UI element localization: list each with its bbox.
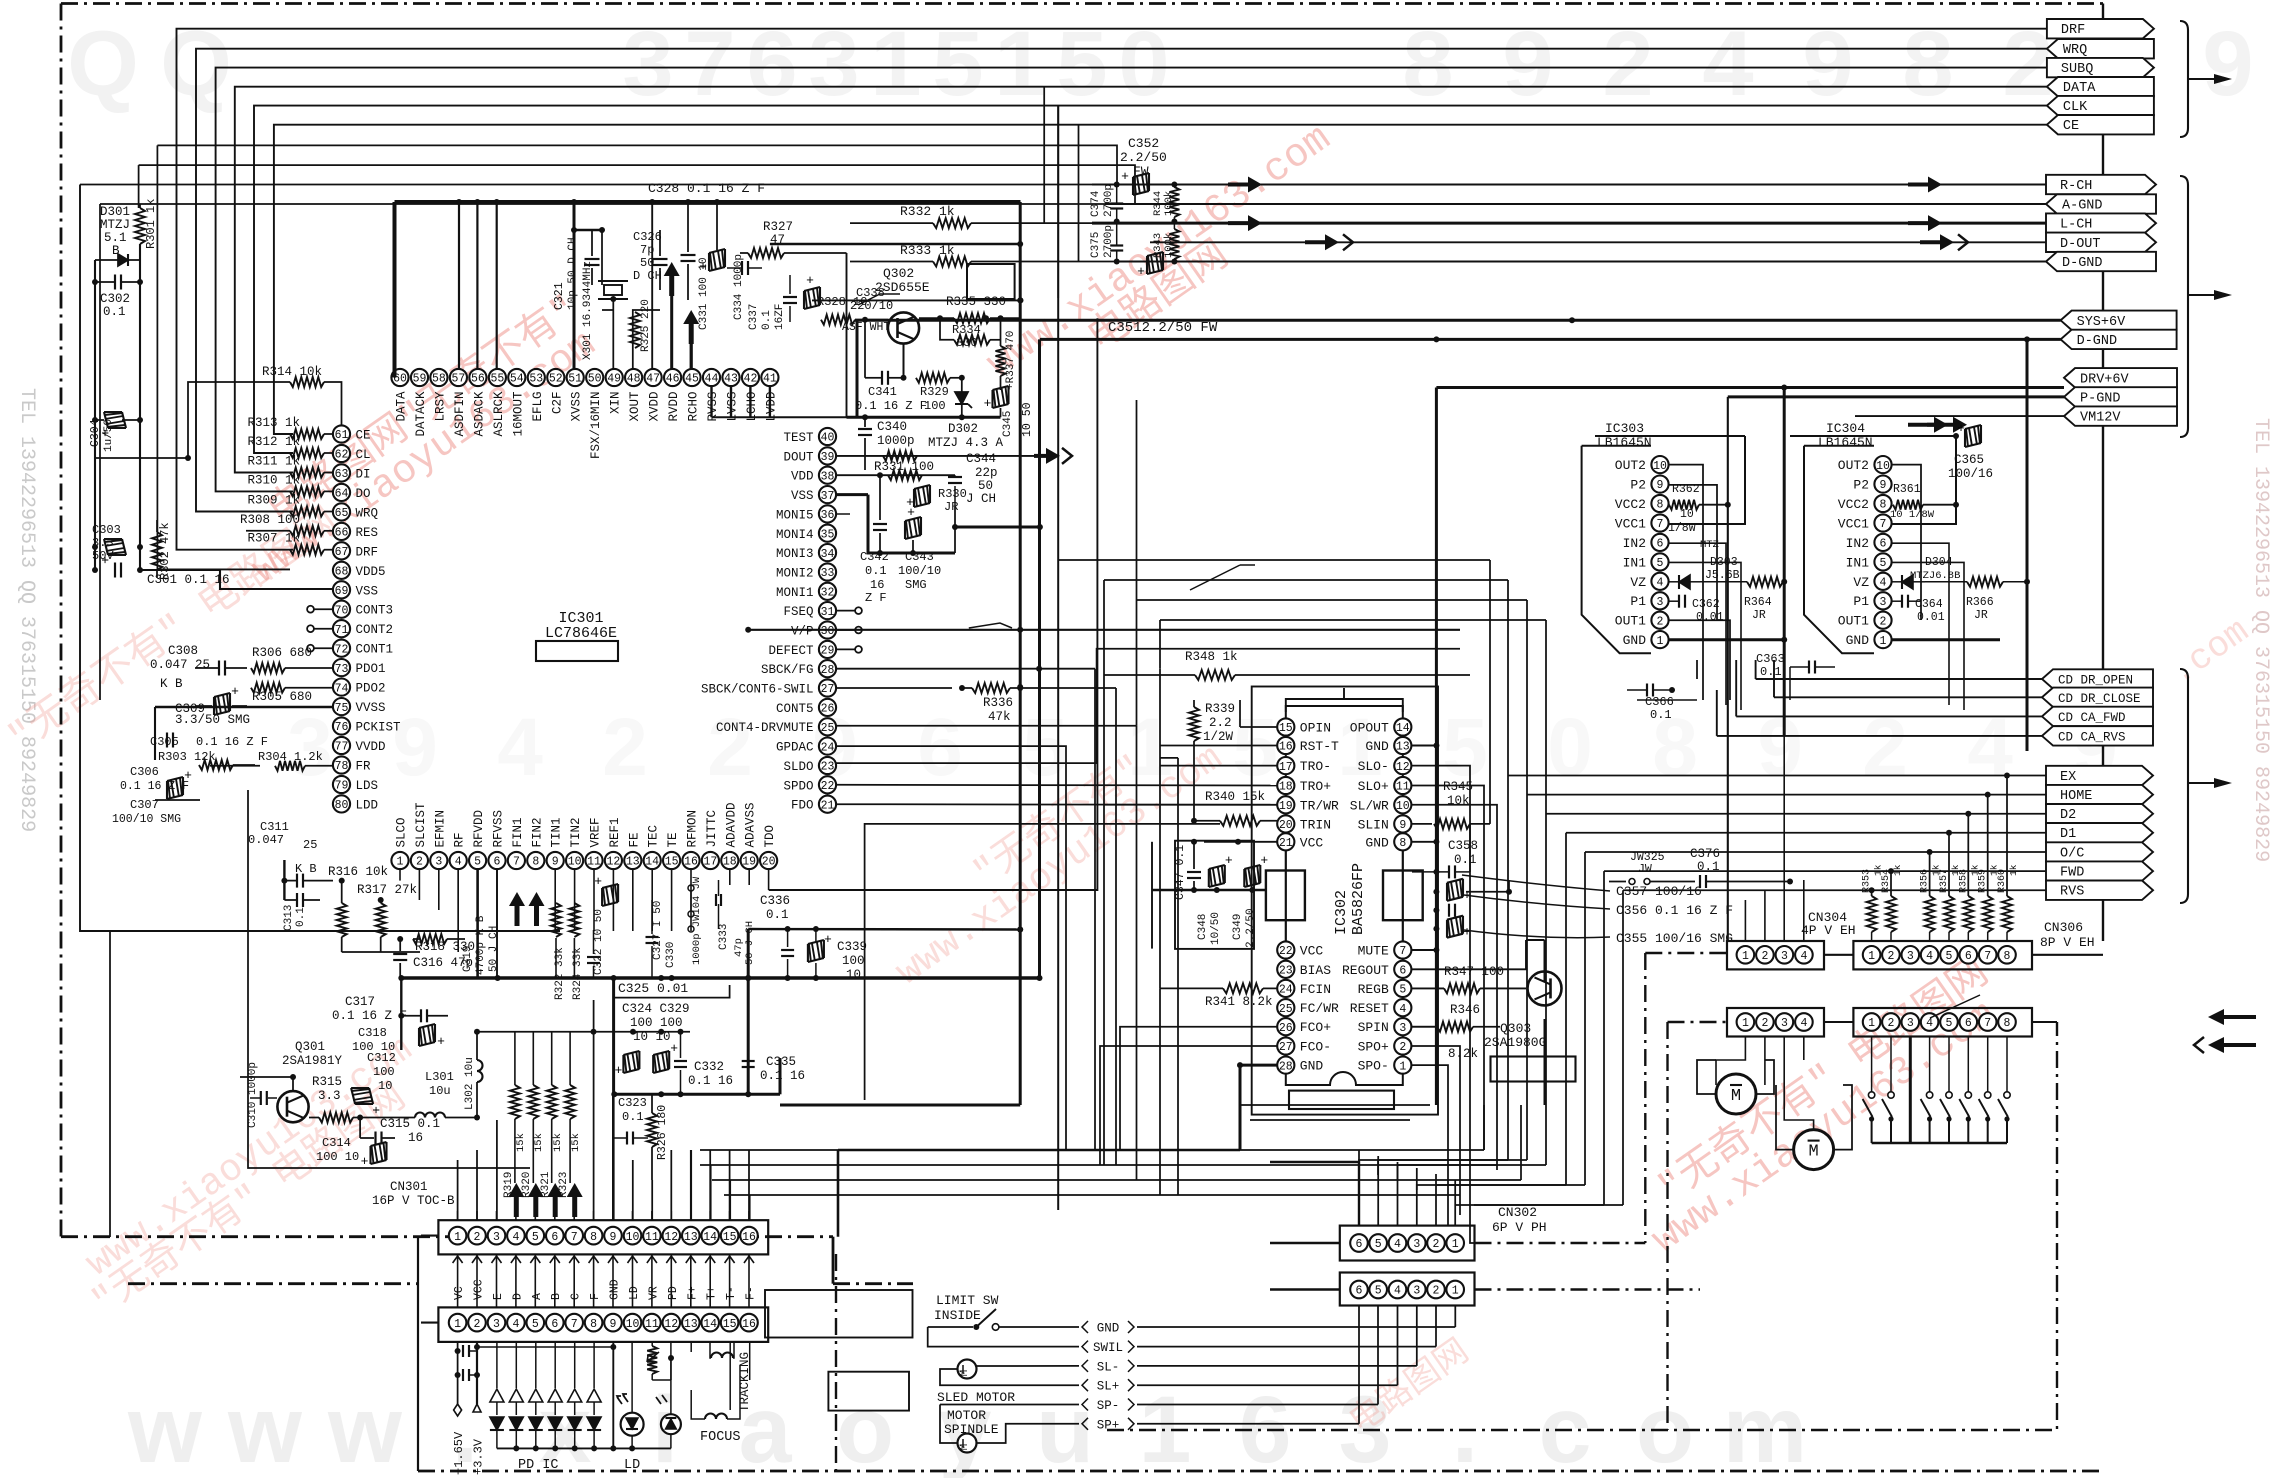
svg-text:79: 79 xyxy=(335,780,349,793)
svg-text:9: 9 xyxy=(610,1231,617,1244)
label C330 xyxy=(665,942,677,968)
IC302 pin 12 SLO- xyxy=(1358,757,1412,774)
svg-text:RFMON: RFMON xyxy=(686,810,700,848)
CN301 row2 pin 14 xyxy=(701,1314,719,1332)
wire opin feed xyxy=(1240,700,1277,727)
svg-text:58: 58 xyxy=(432,373,446,386)
svg-text:R315: R315 xyxy=(312,1075,342,1089)
wire bus3 flag to IC301 xyxy=(216,68,2047,492)
CN306 row1 pin 2 xyxy=(1882,946,1900,964)
svg-text:0.1: 0.1 xyxy=(103,305,126,319)
dash vertical 836 xyxy=(835,1254,837,1471)
wire CN301 col1 riser xyxy=(457,1160,459,1220)
flag CD DR_CLOSE xyxy=(2042,688,2153,707)
photodiode D5 filled xyxy=(568,1417,582,1448)
IC301 pin 70 NC stub xyxy=(307,606,332,613)
page border top xyxy=(61,2,2103,5)
svg-text:RES: RES xyxy=(356,526,379,540)
svg-text:R307 1k: R307 1k xyxy=(247,532,300,546)
CN301 wire F- xyxy=(744,1254,758,1307)
IC301 pin 21 FDO xyxy=(791,796,836,813)
svg-text:MONI3: MONI3 xyxy=(776,547,814,561)
svg-text:59: 59 xyxy=(413,373,427,386)
rect bottom mid 1 xyxy=(765,1290,913,1338)
IC301 pin 8 FIN2 xyxy=(527,817,544,869)
svg-text:19: 19 xyxy=(1279,800,1293,813)
svg-text:12: 12 xyxy=(664,1231,678,1244)
wire Q301 base xyxy=(240,1074,296,1091)
svg-text:R361: R361 xyxy=(1893,483,1921,496)
svg-text:WRQ: WRQ xyxy=(2063,43,2087,58)
svg-text:35: 35 xyxy=(821,529,835,542)
capacitor C318 ecap xyxy=(352,1024,445,1054)
resistor R303 xyxy=(158,750,255,770)
svg-text:R335 330: R335 330 xyxy=(946,295,1006,309)
svg-text:RFVSS: RFVSS xyxy=(492,810,506,848)
CN301 wire VC xyxy=(453,1254,467,1307)
svg-text:5: 5 xyxy=(1880,557,1887,570)
resistor R360 xyxy=(1997,864,2019,941)
svg-text:16ZF: 16ZF xyxy=(774,304,786,330)
bracket middle group xyxy=(2180,176,2232,437)
svg-text:0.047 25: 0.047 25 xyxy=(150,658,210,672)
IC301 pin 6 RFVSS xyxy=(488,810,505,869)
wire RFVDD thick drop xyxy=(476,869,479,978)
wire F+ col xyxy=(690,1342,692,1352)
arrow FIN2 xyxy=(529,892,545,926)
svg-text:R311 1k: R311 1k xyxy=(247,455,300,469)
svg-text:3.3: 3.3 xyxy=(318,1089,341,1103)
IC301 pin 34 MONI3 xyxy=(776,544,836,561)
arrow D-OUT 1 xyxy=(1305,234,1353,250)
svg-text:45: 45 xyxy=(685,373,699,386)
IC303 pin 2 OUT1 xyxy=(1615,612,1669,629)
flag A-GND xyxy=(2046,194,2156,213)
resistor R366 xyxy=(1925,577,2030,622)
svg-text:GND: GND xyxy=(609,1279,622,1300)
svg-text:13: 13 xyxy=(684,1231,698,1244)
flag D-GND xyxy=(2046,252,2156,271)
jumper JW104 xyxy=(688,876,703,965)
wire pin23 route xyxy=(836,649,1460,763)
svg-text:LB1645N: LB1645N xyxy=(1597,435,1652,450)
svg-text:13: 13 xyxy=(684,1318,698,1331)
svg-text:PD IC: PD IC xyxy=(518,1458,559,1473)
CN304 row2 pin 3 xyxy=(1776,1013,1794,1031)
svg-text:R329: R329 xyxy=(920,385,949,399)
svg-text:FIN1: FIN1 xyxy=(511,817,525,847)
wire IC301 bottom pin 6 drop xyxy=(496,869,498,931)
svg-text:+: + xyxy=(614,1063,622,1078)
wire IC301 bottom pin 11 drop xyxy=(593,869,595,931)
label C357 xyxy=(1616,884,1702,899)
CN306 row2 pin 1 xyxy=(1863,1013,1881,1031)
svg-text:32: 32 xyxy=(821,587,835,600)
svg-text:10: 10 xyxy=(1680,508,1694,521)
wire CN302 col 4 up xyxy=(1397,1162,1399,1226)
CN304 col wires xyxy=(1745,736,1803,941)
svg-text:9: 9 xyxy=(1657,479,1664,492)
wire ic303 in wires xyxy=(1669,543,1741,710)
wire c325 line xyxy=(614,985,730,998)
svg-text:6: 6 xyxy=(1657,538,1664,551)
svg-text:1: 1 xyxy=(454,1231,461,1244)
svg-text:CONT4-DRVMUTE: CONT4-DRVMUTE xyxy=(716,721,814,735)
svg-text:JR: JR xyxy=(944,500,958,514)
IC301 pin 13 FE xyxy=(624,832,641,869)
svg-text:TEC: TEC xyxy=(647,825,661,848)
IC302 pin 28 GND xyxy=(1277,1057,1323,1074)
svg-text:C312: C312 xyxy=(367,1051,396,1065)
svg-text:CL: CL xyxy=(356,448,371,462)
capacitor C375 xyxy=(1090,222,1123,262)
svg-text:GPDAC: GPDAC xyxy=(776,741,814,755)
wire cn302 upper horizontals xyxy=(1240,1105,1430,1120)
wire pin28 gnd xyxy=(1237,1062,1277,1150)
svg-text:7: 7 xyxy=(1399,945,1406,958)
svg-text:68: 68 xyxy=(335,566,349,579)
resistor R309 xyxy=(247,494,333,517)
wire A-GND line xyxy=(1105,203,2046,205)
arrow left in 1 xyxy=(2208,1009,2256,1025)
svg-text:+3.3V: +3.3V xyxy=(472,1438,486,1475)
CN302 label xyxy=(1492,1205,1547,1235)
resistor R353 xyxy=(1862,864,1884,941)
wire CN301 col11 riser xyxy=(651,1180,653,1220)
capacitor C332 xyxy=(674,1032,733,1095)
svg-text:LDS: LDS xyxy=(356,779,379,793)
spindle motor sym xyxy=(958,1434,977,1453)
svg-text:1: 1 xyxy=(1868,1017,1875,1030)
svg-text:8P V EH: 8P V EH xyxy=(2040,935,2095,950)
svg-text:OUT1: OUT1 xyxy=(1838,614,1869,629)
wire bus1 flag to IC301 xyxy=(177,29,2047,550)
svg-text:SPO+: SPO+ xyxy=(1358,1040,1389,1055)
wire R332 xyxy=(850,222,1092,224)
resistor R356 xyxy=(1920,864,1942,941)
IC301 pin 71 CONT2 xyxy=(333,620,393,637)
wire pin28 line xyxy=(836,666,1095,1150)
capacitor C374 xyxy=(1090,184,1123,222)
svg-text:JW: JW xyxy=(1638,863,1652,876)
IC301 pin 30 V/P xyxy=(791,621,836,638)
IC301 pin 10 TIN2 xyxy=(566,817,583,869)
annotation tick 4 xyxy=(858,294,900,305)
CN306 row2 box xyxy=(1853,1008,2032,1037)
wire IC301 bottom pin 12 drop xyxy=(612,869,614,931)
svg-text:2SA1980G: 2SA1980G xyxy=(1484,1035,1546,1050)
wire y253 xyxy=(800,252,847,254)
wire RF pin4 drop xyxy=(457,869,459,952)
wire vert 1039 xyxy=(1038,339,1041,978)
motor M2 xyxy=(1776,1085,1852,1170)
svg-text:PD: PD xyxy=(667,1286,680,1300)
capacitor C323 xyxy=(614,1096,648,1145)
svg-text:1/2W: 1/2W xyxy=(1203,730,1234,744)
svg-text:4: 4 xyxy=(512,1231,519,1244)
svg-text:R348 1k: R348 1k xyxy=(1185,650,1238,664)
svg-text:VCC: VCC xyxy=(1300,944,1324,959)
wire EX line left xyxy=(1104,580,1508,1160)
LED LD2 xyxy=(656,1342,681,1449)
IC301 pin 27 SBCK/CONT6-SWIL xyxy=(701,679,836,696)
svg-text:0.1 16 Z F: 0.1 16 Z F xyxy=(196,735,268,749)
wire SWIL right xyxy=(1137,1305,1436,1347)
CN301 row1 pin 7 xyxy=(565,1227,583,1245)
capacitor C306 xyxy=(120,765,192,799)
CN304 row1 pin 1 xyxy=(1737,946,1755,964)
svg-text:16: 16 xyxy=(742,1318,756,1331)
svg-text:100/10: 100/10 xyxy=(898,564,941,578)
CN301 wire LD xyxy=(628,1254,642,1307)
photodiode D4 open xyxy=(548,1342,562,1415)
wire VCC21 left xyxy=(1152,839,1277,949)
svg-text:9: 9 xyxy=(610,1318,617,1331)
IC302 pin 16 RST-T xyxy=(1277,737,1339,754)
wire trwr feed xyxy=(1104,804,1277,806)
CN301 row2 box xyxy=(438,1307,768,1342)
svg-text:SBCK/CONT6-SWIL: SBCK/CONT6-SWIL xyxy=(701,683,814,697)
capacitor C357 ecap xyxy=(1447,879,1471,903)
capacitor C307 xyxy=(112,798,200,826)
svg-text:2: 2 xyxy=(707,702,753,793)
CN302 left wire row1 xyxy=(1270,1162,1359,1243)
svg-text:4: 4 xyxy=(1394,1285,1401,1298)
CN306 row2 pin 3 xyxy=(1902,1013,1920,1031)
capacitor C316 xyxy=(393,936,473,978)
flag R-CH xyxy=(2046,175,2156,194)
wire thin y1031 xyxy=(474,1029,690,1035)
svg-text:R312 1k: R312 1k xyxy=(247,435,300,449)
wire CN301 col 16 up xyxy=(748,1211,750,1220)
wire D-GND line xyxy=(770,241,2046,265)
svg-text:2: 2 xyxy=(1433,1285,1440,1298)
IC301 pin 69 VSS xyxy=(333,581,378,598)
wire TDO drop xyxy=(769,869,790,890)
svg-text:14: 14 xyxy=(1396,722,1410,735)
svg-text:XOUT: XOUT xyxy=(628,391,642,422)
CN301 row2 pin 16 xyxy=(740,1314,758,1332)
LED LD1 xyxy=(617,1342,644,1452)
flag DRF xyxy=(2047,19,2154,38)
CN302 dash right row2 xyxy=(1475,1288,1701,1290)
capacitor C315 xyxy=(360,1117,440,1145)
limit switch xyxy=(928,1309,1079,1330)
wire XVDD pin47 xyxy=(651,202,653,369)
svg-text:XIN: XIN xyxy=(609,392,623,415)
CN302 row1 pin 1 xyxy=(1446,1234,1464,1252)
wire vert 2027 xyxy=(2026,339,2029,751)
resistor R333 xyxy=(850,243,1117,267)
svg-text:+: + xyxy=(231,684,239,699)
resistor R301 xyxy=(135,199,158,249)
svg-text:FCO-: FCO- xyxy=(1300,1040,1331,1055)
svg-text:O/C: O/C xyxy=(2060,847,2084,862)
wire CN301 col8 riser xyxy=(593,1000,595,1220)
svg-text:SLDO: SLDO xyxy=(783,760,813,774)
IC302 pin 1 SPO- xyxy=(1358,1057,1412,1074)
CN306 row2 pin 7 xyxy=(1979,1013,1997,1031)
svg-text:5: 5 xyxy=(1946,950,1953,963)
wire VSS pin37 bus xyxy=(836,495,1043,556)
svg-text:42: 42 xyxy=(744,373,758,386)
svg-text:22: 22 xyxy=(1279,945,1293,958)
svg-text:15k: 15k xyxy=(533,1133,545,1152)
capacitor C321 xyxy=(585,230,600,285)
IC304 pin 5 IN1 xyxy=(1846,553,1892,570)
wire CN301 col2 riser xyxy=(476,1150,478,1220)
svg-text:24: 24 xyxy=(1279,984,1293,997)
svg-text:CN301: CN301 xyxy=(390,1180,428,1194)
svg-text:3.3/50 SMG: 3.3/50 SMG xyxy=(175,713,250,727)
wire y145 run xyxy=(139,145,1135,204)
arrow R-CH 1 xyxy=(1228,177,1262,193)
CN301 row2 pin 3 xyxy=(488,1314,506,1332)
svg-text:m: m xyxy=(1723,1377,1807,1478)
svg-text:23: 23 xyxy=(1279,965,1293,978)
wire bus2 flag to IC301 xyxy=(196,49,2047,512)
svg-text:9: 9 xyxy=(552,856,559,869)
svg-text:2: 2 xyxy=(1887,950,1894,963)
svg-text:15k: 15k xyxy=(515,1133,527,1152)
wire VM12V line xyxy=(1855,415,2064,417)
svg-text:R339: R339 xyxy=(1205,702,1235,716)
CN301 row1 pin 12 xyxy=(663,1227,681,1245)
svg-text:5: 5 xyxy=(532,1318,539,1331)
svg-text:+: + xyxy=(1137,264,1145,279)
wire CN301 col 8 up xyxy=(593,1211,595,1220)
svg-text:C355 100/16 SMG: C355 100/16 SMG xyxy=(1616,931,1733,946)
wire CN301 col 9 up xyxy=(612,1211,614,1220)
svg-text:R314 10k: R314 10k xyxy=(262,365,322,379)
CN306 row2 pin 2 xyxy=(1882,1013,1900,1031)
wire CN301 row2 pin1 down xyxy=(457,1342,459,1404)
svg-text:4: 4 xyxy=(1926,1017,1933,1030)
svg-text:C323: C323 xyxy=(618,1096,647,1110)
svg-text:1: 1 xyxy=(1880,635,1887,648)
wire R-CH line xyxy=(1092,182,2046,188)
wire SP- xyxy=(940,1405,1079,1444)
svg-text:PCKIST: PCKIST xyxy=(356,721,402,735)
svg-text:TIN2: TIN2 xyxy=(569,817,583,847)
IC304 pin 8 VCC2 xyxy=(1838,495,1892,512)
svg-text:70: 70 xyxy=(335,604,349,617)
box lower-left outline2 xyxy=(109,931,111,1237)
CN301 row1 pin 2 xyxy=(468,1227,486,1245)
svg-text:MTZJ: MTZJ xyxy=(100,218,130,232)
svg-text:P2: P2 xyxy=(1630,478,1646,493)
capacitor C314 ecap xyxy=(316,1136,387,1169)
wire pin45 RCHO route xyxy=(690,344,693,369)
svg-text:47: 47 xyxy=(646,373,660,386)
IC301 pin 71 NC stub xyxy=(307,625,332,632)
svg-text:100: 100 xyxy=(842,954,865,968)
wire box around caps xyxy=(1175,841,1254,949)
wire CN301 col 10 up xyxy=(632,1211,634,1220)
svg-text:D-OUT: D-OUT xyxy=(2060,237,2101,252)
resistor R308 xyxy=(240,513,333,536)
wire PD bus xyxy=(497,1445,616,1451)
wire SL+ right xyxy=(1137,1305,1398,1385)
svg-text:6: 6 xyxy=(1399,965,1406,978)
svg-text:2: 2 xyxy=(416,856,423,869)
resistor R340 xyxy=(1191,790,1277,826)
svg-text:100 10: 100 10 xyxy=(316,1150,359,1164)
svg-text:P2: P2 xyxy=(1853,478,1869,493)
svg-text:DRF: DRF xyxy=(356,545,379,559)
wire CN302 feed F+ xyxy=(690,1150,692,1352)
svg-text:C326: C326 xyxy=(633,230,662,244)
svg-text:14: 14 xyxy=(703,1231,717,1244)
svg-text:CN306: CN306 xyxy=(2044,920,2083,935)
svg-text:VR: VR xyxy=(647,1286,660,1300)
IC301 pin 14 TEC xyxy=(644,825,661,869)
svg-text:C325 0.01: C325 0.01 xyxy=(618,981,688,996)
IC301 pin 25 CONT4-DRVMUTE xyxy=(716,718,836,735)
svg-text:2700p: 2700p xyxy=(1103,184,1115,217)
IC301 pin 51 XVSS xyxy=(567,369,584,422)
svg-text:MTZ: MTZ xyxy=(1700,539,1719,551)
flag D-GND xyxy=(2061,330,2177,349)
svg-text:8: 8 xyxy=(2004,950,2011,963)
CN301 wire T+ xyxy=(705,1254,719,1307)
svg-text:1: 1 xyxy=(1742,950,1749,963)
resistor R344 xyxy=(1152,185,1179,222)
CN301 row1 pin 11 xyxy=(643,1227,661,1245)
label +1.65V xyxy=(452,1404,466,1475)
CN301 wire GND xyxy=(608,1254,622,1307)
IC301 pin 31 FSEQ xyxy=(783,602,836,619)
svg-text:A: A xyxy=(531,1293,544,1300)
svg-text:R310 1k: R310 1k xyxy=(247,473,300,487)
IC302 name box xyxy=(1289,1091,1394,1109)
wire CN302 col 6 up xyxy=(1358,1150,1360,1226)
svg-text:16: 16 xyxy=(684,856,698,869)
IC303 pin 6 IN2 xyxy=(1623,534,1669,551)
svg-text:8: 8 xyxy=(590,1231,597,1244)
svg-text:R325 220: R325 220 xyxy=(640,299,652,352)
svg-text:1: 1 xyxy=(1452,1238,1459,1251)
wire D-GND rail xyxy=(1040,336,2061,342)
svg-text:4: 4 xyxy=(497,702,543,793)
svg-text:27: 27 xyxy=(821,683,835,696)
svg-text:15k: 15k xyxy=(552,1133,564,1152)
CN306 row2 pin 4 xyxy=(1921,1013,1939,1031)
svg-text:ASF WHT: ASF WHT xyxy=(842,321,890,334)
wire J CH bus xyxy=(398,975,1039,981)
svg-text:3: 3 xyxy=(1781,1017,1788,1030)
svg-text:+R337 470: +R337 470 xyxy=(1005,331,1017,390)
svg-text:CONT5: CONT5 xyxy=(776,702,814,716)
annotation tick 1 xyxy=(969,623,1012,628)
wire FR pin78 xyxy=(210,765,260,767)
IC301 pin 39 DOUT xyxy=(783,447,836,464)
svg-text:7: 7 xyxy=(1984,950,1991,963)
CN304 row2 pin 4 xyxy=(1795,1013,1813,1031)
resistor R313 xyxy=(247,416,333,439)
svg-text:7: 7 xyxy=(1880,518,1887,531)
annotation tick 2 xyxy=(1190,565,1255,590)
bracket top group xyxy=(2180,21,2232,137)
chevron GND xyxy=(1082,1321,1134,1336)
svg-text:15: 15 xyxy=(665,856,679,869)
resistor R326 xyxy=(647,1094,669,1180)
chevron SL+ xyxy=(1082,1379,1134,1394)
wire thick 1020 to bus xyxy=(780,1104,1020,1107)
IC303 pin 3 P1 xyxy=(1630,592,1668,609)
svg-text:13: 13 xyxy=(1396,741,1410,754)
IC301 pin 80 LDD xyxy=(333,795,378,812)
